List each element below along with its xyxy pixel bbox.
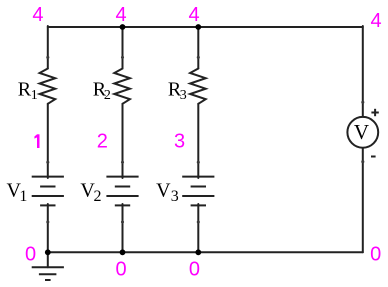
wire joint tick branch 1 top bbox=[46, 56, 49, 59]
wire branch 2 top (node 4 to R2) bbox=[122, 27, 124, 69]
svg-text:1: 1 bbox=[19, 188, 27, 205]
wire branch 1 bottom bbox=[47, 204, 49, 252]
svg-text:4: 4 bbox=[370, 10, 381, 32]
node junction dot top branch 2 bbox=[120, 24, 126, 30]
wire right branch bottom (voltmeter to node 0) bbox=[362, 148, 364, 253]
node junction dot bottom branch 1 bbox=[45, 249, 51, 255]
svg-text:0: 0 bbox=[189, 259, 200, 281]
voltmeter V circle bbox=[347, 117, 378, 148]
resistor R1 bbox=[40, 69, 56, 104]
node junction dot top branch 3 bbox=[195, 24, 201, 30]
wire branch 1 middle node 1 bbox=[47, 104, 49, 178]
wire left branch top (node 4 to R1) bbox=[47, 26, 49, 69]
wire bottom rail node 0 bbox=[48, 251, 363, 253]
wire right branch top (node 4 to voltmeter) bbox=[362, 26, 364, 117]
node 1 label bbox=[34, 134, 39, 148]
svg-text:2: 2 bbox=[94, 188, 102, 205]
svg-text:4: 4 bbox=[115, 4, 126, 26]
svg-text:2: 2 bbox=[97, 131, 108, 153]
svg-text:R: R bbox=[18, 79, 32, 101]
wire joint tick branch 2 top bbox=[121, 56, 124, 59]
voltmeter plus sign bbox=[371, 109, 378, 116]
svg-text:0: 0 bbox=[115, 259, 126, 281]
wire joint tick branch 3 top bbox=[197, 56, 200, 59]
node junction dot bottom branch 2 bbox=[120, 249, 126, 255]
svg-text:4: 4 bbox=[188, 4, 199, 26]
battery V3 plates bbox=[182, 177, 214, 206]
battery V2 plates bbox=[106, 177, 138, 206]
wire top rail node 4 bbox=[48, 26, 363, 28]
wire branch 3 top (node 4 to R3) bbox=[197, 27, 199, 69]
wire ground stem bbox=[47, 252, 49, 267]
svg-text:1: 1 bbox=[31, 88, 38, 103]
ground bbox=[32, 267, 64, 280]
svg-text:V: V bbox=[354, 120, 369, 144]
voltmeter minus sign bbox=[371, 156, 376, 158]
node junction dot bottom branch 3 bbox=[195, 249, 201, 255]
svg-text:3: 3 bbox=[171, 188, 179, 205]
resistor R2 bbox=[114, 69, 130, 104]
svg-text:0: 0 bbox=[370, 244, 381, 266]
wire joint tick branch 1 bottom bbox=[46, 220, 49, 223]
svg-text:3: 3 bbox=[174, 131, 185, 153]
battery V1 plates bbox=[32, 177, 64, 206]
wire joint tick branch 2 bottom bbox=[121, 220, 124, 223]
wire branch 2 middle node 2 bbox=[122, 104, 124, 178]
svg-text:2: 2 bbox=[104, 88, 111, 103]
svg-text:0: 0 bbox=[25, 244, 36, 266]
wire branch 3 bottom bbox=[197, 204, 199, 252]
wire joint tick voltmeter bottom pin bbox=[361, 160, 364, 163]
svg-text:3: 3 bbox=[180, 88, 187, 103]
svg-text:4: 4 bbox=[32, 4, 43, 26]
wire branch 2 bottom bbox=[122, 204, 124, 252]
svg-text:V: V bbox=[156, 180, 171, 202]
wire joint tick branch 3 mid bbox=[197, 161, 200, 164]
resistor R3 bbox=[190, 69, 206, 104]
wire joint tick branch 1 mid bbox=[46, 161, 49, 164]
wire joint tick branch 3 bottom bbox=[197, 220, 200, 223]
wire joint tick voltmeter top pin bbox=[361, 101, 364, 104]
wire branch 3 middle node 3 bbox=[197, 104, 199, 178]
wire joint tick branch 2 mid bbox=[121, 161, 124, 164]
